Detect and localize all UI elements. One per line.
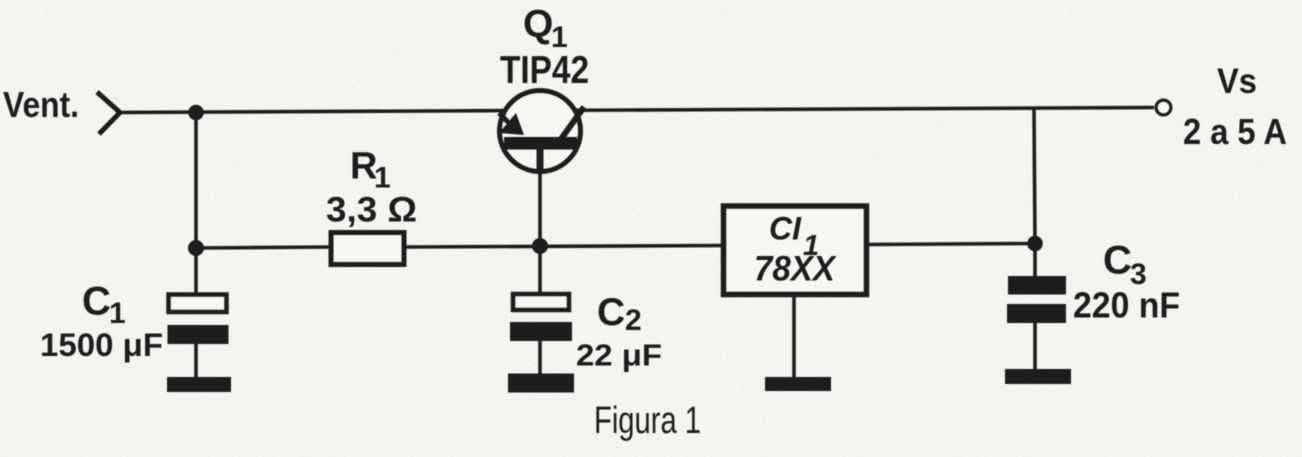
capacitor C2 [510,246,572,374]
node input junction [188,105,204,121]
svg-text:C: C [597,291,625,334]
wire lower rail middle [405,246,722,248]
node C3 junction [1027,236,1043,252]
svg-text:2: 2 [625,304,642,337]
capacitor C1 [168,248,229,378]
svg-text:1: 1 [109,297,126,330]
IC CI1 78XX [724,206,867,295]
node output terminal [1156,100,1171,115]
svg-text:1500 μF: 1500 μF [40,327,163,363]
wire base of Q1 [538,171,542,246]
node C1 junction [188,240,204,256]
svg-text:220 nF: 220 nF [1073,285,1180,326]
svg-text:3,3 Ω: 3,3 Ω [326,191,417,230]
ground C1 [167,377,231,392]
capacitor C3 [1007,243,1066,370]
svg-text:Vs: Vs [1217,62,1257,101]
resistor R1 [331,233,404,265]
svg-text:Vent.: Vent. [3,84,79,125]
svg-text:Figura 1: Figura 1 [594,400,701,442]
input arrow chevron [97,92,120,134]
svg-text:C: C [82,280,111,324]
node C2 junction [532,238,548,254]
svg-text:78XX: 78XX [754,250,838,289]
wire lower rail right [868,244,1035,245]
ground C2 [508,374,574,393]
wire CI1 ground pin [792,295,796,378]
svg-text:Q: Q [523,3,553,46]
wire top rail [119,108,1154,113]
svg-text:22 μF: 22 μF [576,338,662,373]
ground C3 [1005,369,1071,384]
wire lower rail left [196,247,330,248]
wire left vertical [194,112,198,248]
wire right vertical [1034,108,1035,244]
svg-text:C: C [1103,239,1132,283]
transistor Q1 [499,91,584,174]
svg-text:CI: CI [769,211,802,247]
svg-text:TIP42: TIP42 [500,49,589,92]
svg-text:2 a 5 A: 2 a 5 A [1183,111,1287,152]
ground CI1 [765,377,831,391]
